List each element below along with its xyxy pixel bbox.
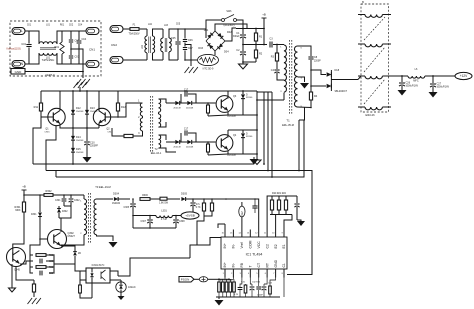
resistor R308 [203, 199, 205, 203]
pin 12 VCC [258, 230, 260, 238]
svg-text:R20 R21 R22: R20 R21 R22 [272, 193, 287, 195]
wire earth mid [71, 49, 83, 78]
wire cap midpoint node [243, 44, 267, 46]
ground standby 2 [9, 288, 16, 292]
wire switch to cap midpoint [237, 20, 244, 33]
transformer T2 primary upper [136, 102, 143, 104]
capacitor C02 (Y) [70, 31, 72, 39]
wire Q2 collector [98, 91, 100, 111]
svg-text:431AC: 431AC [128, 286, 136, 289]
svg-text:E1: E1 [282, 244, 286, 248]
wire feedback divider [118, 275, 126, 277]
pin 5 CT [258, 269, 260, 278]
transformer T2 core [150, 96, 152, 152]
wire winding3 to filter; node [358, 76, 361, 80]
resistor R306 [140, 198, 150, 201]
resistor R2 [255, 45, 257, 51]
transformer T3 core [87, 193, 89, 243]
transformer T3 primary [83, 195, 85, 199]
wire bridge top to B+ rail [215, 24, 247, 31]
svg-text:D302: D302 [62, 211, 68, 213]
wire L line [25, 31, 39, 44]
svg-text:2D4148: 2D4148 [186, 108, 194, 110]
resistor R307 [160, 197, 167, 200]
snubber resistor R3 [276, 45, 278, 54]
pin 10 E2 [275, 230, 277, 238]
connector CN1 top lug [86, 28, 99, 35]
transformer T2 primary lower [140, 118, 142, 131]
pin 13 COM [249, 230, 251, 238]
svg-text:CT: CT [257, 263, 261, 268]
wire Q3 emitter to Q4 collector (midpoint) [243, 114, 257, 116]
ground bias block [83, 157, 92, 163]
svg-text:D12: D12 [76, 107, 81, 110]
diode D12 [72, 91, 74, 110]
svg-text:D18: D18 [335, 69, 340, 72]
svg-text:2D4148: 2D4148 [186, 147, 194, 149]
wire GND strap [25, 71, 83, 73]
pin 8 C1 [283, 269, 285, 278]
pin 15 IN- [232, 230, 234, 238]
svg-text:C2: C2 [265, 244, 269, 248]
wire Q4 emitter down [243, 153, 257, 155]
svg-text:T3 EEL-19-M: T3 EEL-19-M [95, 185, 110, 189]
resistor R303 [36, 254, 46, 257]
svg-text:C05: C05 [176, 24, 181, 26]
diode pair base Q4 [166, 141, 175, 143]
pin 16 IN+ [224, 230, 226, 238]
capacitor C07 (Y) [183, 47, 187, 49]
terminal GND [11, 69, 25, 75]
wire to rectifier bottom [311, 85, 326, 87]
svg-text:C17: C17 [184, 129, 189, 131]
ground TL431 [118, 296, 125, 300]
svg-text:VCC: VCC [257, 241, 261, 249]
capacitor speedup Q4 [180, 133, 182, 142]
line filter transformer L03 [162, 29, 164, 38]
ground (secondary CT) [300, 83, 309, 89]
ground (primary) [242, 62, 244, 64]
wires RC ladder [30, 255, 33, 273]
transistor Q302 [48, 230, 67, 249]
svg-text:C305: C305 [124, 207, 130, 209]
svg-text:COM: COM [249, 240, 253, 248]
svg-text:R01: R01 [54, 46, 59, 49]
EMI filter enclosure (dashed) [10, 21, 101, 76]
wire E2/E1 links [275, 215, 277, 230]
svg-text:T1: T1 [286, 119, 290, 123]
svg-text:C302: C302 [74, 200, 80, 202]
wire neutral to bridge [185, 59, 197, 61]
svg-text:C10: C10 [90, 142, 95, 145]
capacitor C27 [432, 76, 434, 83]
svg-text:C27: C27 [437, 83, 442, 86]
capacitor C2 (bulk) [242, 55, 244, 62]
connector N [12, 61, 25, 68]
svg-text:C308: C308 [179, 221, 185, 223]
wire bus 3 [56, 155, 304, 177]
svg-text:2200PF: 2200PF [90, 146, 99, 148]
T4 winding 1 [358, 14, 365, 16]
TL431 IC302 [116, 282, 126, 292]
diode D14 [72, 128, 74, 136]
svg-text:R01: R01 [60, 25, 65, 27]
wire bias block to T2 [118, 103, 136, 117]
wire L out [79, 30, 86, 32]
svg-text:4.7uH: 4.7uH [161, 219, 167, 221]
svg-text:D15: D15 [76, 148, 81, 151]
wire opto LED feed [75, 264, 86, 271]
ground bottom cluster [218, 297, 220, 299]
pin 6 RT [266, 269, 268, 278]
svg-text:L: L [21, 29, 23, 33]
diode damper Q4 [242, 130, 244, 133]
wire N out [79, 63, 86, 65]
svg-text:C06: C06 [188, 39, 193, 42]
svg-text:EEL-16-1: EEL-16-1 [151, 152, 162, 155]
wire emitter Q4 [228, 151, 243, 155]
svg-text:GND: GND [15, 70, 23, 74]
connector L [12, 28, 25, 35]
diode D304 [114, 197, 118, 201]
wire T1 secondary bottom [298, 106, 312, 109]
wire Q302 base network [40, 228, 48, 239]
svg-text:C04: C04 [78, 25, 83, 27]
svg-text:R11: R11 [34, 106, 39, 109]
svg-text:+5VSB: +5VSB [185, 214, 194, 218]
fuse F1 [123, 28, 130, 30]
wire opto gnd join [91, 283, 93, 298]
wire pson junction [219, 278, 229, 280]
snubber capacitor C4 [274, 69, 279, 71]
resistor base Q4 [207, 144, 210, 152]
wire T1 secondary top [298, 46, 312, 56]
wire standby top rail [24, 194, 84, 196]
diode D305 [181, 197, 185, 201]
svg-text:FB: FB [240, 262, 244, 267]
wire pin links bottom [224, 278, 226, 280]
svg-text:R306: R306 [142, 195, 148, 197]
svg-text:GND: GND [274, 259, 278, 267]
svg-text:C01: C01 [21, 43, 26, 46]
svg-text:1N4148: 1N4148 [76, 111, 84, 113]
wire T3 secondary top [97, 198, 114, 200]
svg-text:FR106: FR106 [246, 97, 253, 99]
connector CN2 line lug [110, 26, 123, 33]
resistor divider cluster R309-R311 [270, 195, 292, 197]
transformer T2 secondary A [159, 99, 161, 112]
resistor R309 [211, 199, 213, 203]
svg-text:B: B [362, 0, 364, 4]
svg-text:(AC230V): (AC230V) [224, 24, 235, 27]
pin 2 IN- [232, 269, 234, 278]
diode pair base Q3 [166, 102, 175, 104]
svg-text:2D4148: 2D4148 [173, 147, 181, 149]
ground (chassis) input [185, 67, 198, 73]
svg-text:SW1: SW1 [226, 10, 232, 13]
svg-text:ERL-35-M: ERL-35-M [282, 123, 294, 127]
svg-text:Vref: Vref [241, 211, 244, 216]
svg-text:D304: D304 [113, 193, 120, 196]
common-mode choke L02 [146, 29, 148, 36]
ground output 2 [429, 92, 438, 98]
wire Q4 collector [228, 129, 257, 131]
svg-text:C32 R34: C32 R34 [252, 282, 261, 284]
ground mid rail [256, 159, 258, 161]
wire vertical links from primary side [263, 92, 265, 164]
svg-text:SBL2040CT: SBL2040CT [335, 91, 348, 93]
svg-text:EI40-26: EI40-26 [365, 113, 375, 117]
resistor R11 and left drop [40, 96, 42, 103]
wire standby to opto link [126, 258, 190, 276]
wire bus2 into chip area [287, 274, 289, 276]
svg-text:C05: C05 [171, 37, 176, 40]
ground standby 1 [28, 298, 41, 304]
wire B+ to transformer [263, 29, 265, 45]
svg-text:2SC4242: 2SC4242 [227, 116, 237, 118]
transistor Q3 [216, 96, 233, 113]
capacitor C302 [70, 195, 72, 198]
resistor R302 [44, 194, 53, 197]
capacitor C06 (Y) [184, 29, 186, 39]
transformer T3 secondary [94, 199, 97, 235]
wire neutral to choke [123, 59, 147, 61]
svg-text:PSON: PSON [181, 277, 190, 281]
capacitor C05 (X2) [177, 29, 179, 41]
capacitor C304 [39, 271, 41, 276]
capacitor C3 (coupling) [269, 42, 271, 48]
svg-text:C945: C945 [45, 131, 51, 133]
transformer T2 secondary C [159, 135, 161, 148]
pin 11 C2 [266, 230, 268, 238]
diode D13 [86, 91, 88, 110]
ground output 1 [398, 90, 407, 96]
svg-text:D301: D301 [31, 214, 37, 216]
wire Q302 emitter [61, 246, 75, 248]
svg-text:Vref: Vref [240, 242, 244, 248]
diode D15 [72, 140, 74, 148]
capacitor C01 [28, 31, 30, 44]
capacitor C305 [132, 199, 134, 203]
transformer T2 secondary B [159, 114, 161, 127]
wire top rail [236, 28, 264, 30]
svg-text:D13: D13 [90, 107, 95, 110]
svg-text:IC1 TL494: IC1 TL494 [246, 253, 263, 257]
thermistor NTC1 [214, 51, 216, 55]
svg-text:C945: C945 [14, 269, 20, 272]
wire bus 2 [46, 171, 312, 275]
bridge rectifier D01-D04 [206, 31, 225, 51]
svg-text:MFC: MFC [413, 80, 419, 83]
T4 winding 3 [358, 75, 365, 77]
svg-text:IN+: IN+ [223, 243, 227, 248]
resistor R01 (zigzag) [61, 31, 63, 42]
svg-text:C01: C01 [27, 25, 32, 27]
terminal +5VSB [181, 212, 199, 219]
pin 4 T [249, 269, 251, 278]
svg-text:C02: C02 [69, 25, 74, 27]
svg-text:IN-: IN- [232, 263, 236, 268]
svg-text:IN-: IN- [232, 244, 236, 249]
svg-text:R31 R32 R33: R31 R32 R33 [220, 280, 233, 282]
svg-text:T5A/250V: T5A/250V [128, 33, 139, 36]
capacitor C10 [86, 128, 88, 141]
wire opto transistor side [110, 271, 118, 276]
wire midpoint to T1 primary [257, 99, 284, 101]
svg-text:1000P: 1000P [257, 295, 263, 297]
svg-text:RT: RT [265, 263, 269, 267]
capacitor C04 (X) [78, 31, 80, 40]
wire VCC feed [226, 199, 259, 230]
pin 14 Vref [241, 230, 243, 238]
svg-text:D04: D04 [224, 51, 229, 54]
polar cap on PSON line [194, 278, 199, 280]
svg-text:T: T [249, 265, 253, 267]
svg-text:FR106: FR106 [246, 136, 253, 138]
transistor Q2 [93, 108, 110, 125]
transistor Q1 [48, 108, 65, 125]
svg-text:D02: D02 [227, 31, 232, 34]
svg-text:1N4148: 1N4148 [76, 140, 84, 142]
transistor Q301 [7, 248, 26, 267]
resistor R12 and right drop [117, 91, 119, 103]
zener ZD301 [74, 248, 76, 251]
node B+ standby [23, 190, 25, 202]
wire T3 primary bottom to Q302 [61, 240, 84, 246]
dual schottky D18 [327, 72, 332, 77]
svg-text:C1: C1 [282, 263, 286, 267]
capacitor C303 [39, 259, 41, 264]
svg-text:+B: +B [262, 13, 266, 17]
capacitor C26 [401, 76, 403, 82]
wire bias top rail [60, 90, 99, 92]
wire bus 1 [33, 163, 254, 165]
transformer T1 primary [283, 44, 285, 47]
ground bus marker [253, 157, 255, 159]
diode D302 [58, 206, 60, 208]
pin 1 IN+ [224, 269, 226, 278]
wire emitter Q3 [228, 112, 243, 116]
flag PSON [179, 277, 194, 283]
resistor R305 [33, 280, 35, 284]
transformer T1 secondary [294, 46, 297, 107]
wire bottom node [243, 61, 256, 63]
wire Q301 emitter [11, 264, 13, 288]
resistor R1 [255, 29, 257, 34]
svg-text:C26: C26 [406, 82, 411, 85]
T4 core coupling marks [364, 17, 385, 104]
svg-text:L02: L02 [141, 44, 144, 49]
svg-text:NTC 5D-9: NTC 5D-9 [203, 68, 214, 71]
wire Y-cap earth [185, 45, 191, 67]
svg-text:330uF: 330uF [233, 36, 240, 38]
wire collector Q4 [227, 130, 229, 138]
common-mode choke L01 [39, 42, 57, 44]
svg-text:1000uF/16V: 1000uF/16V [406, 86, 419, 88]
svg-text:4.7K: 4.7K [196, 207, 201, 209]
wire emitter rail [60, 124, 99, 129]
svg-text:2200P: 2200P [314, 61, 321, 63]
svg-text:D305: D305 [181, 193, 188, 196]
svg-text:C301: C301 [55, 200, 61, 202]
svg-text:C5027: C5027 [68, 235, 76, 238]
optocoupler IC301 [86, 268, 110, 283]
resistor R315 (opto bias) [79, 280, 81, 285]
RC pairs under chip [239, 285, 241, 287]
output terminal +12V [455, 72, 472, 79]
capacitor speedup Q3 [180, 94, 182, 103]
wire Q302 collector [61, 210, 71, 232]
diode D301 [39, 195, 41, 212]
coupled inductor T4 (dashed box) [361, 4, 389, 112]
svg-text:1N4148: 1N4148 [76, 152, 84, 154]
capacitor C307 [149, 216, 151, 220]
svg-text:IC301 817C: IC301 817C [92, 264, 105, 267]
svg-text:CEPT-X: CEPT-X [45, 73, 55, 77]
ground T3 secondary [109, 242, 118, 248]
Vref bead [239, 206, 245, 217]
diode damper Q3 [242, 91, 244, 94]
svg-text:Kaihua(1103): Kaihua(1103) [7, 48, 21, 51]
wire T1 centre tap [298, 77, 305, 82]
svg-text:L301: L301 [161, 210, 167, 213]
wire secondary return links [298, 120, 300, 171]
capacitor C309 [224, 224, 226, 230]
ground (chassis) [77, 79, 90, 85]
svg-text:2D4148: 2D4148 [173, 108, 181, 110]
svg-text:CN1: CN1 [89, 48, 95, 52]
wire rectifier output [332, 79, 359, 81]
connector CN2 neutral lug [110, 57, 123, 64]
node B+ [263, 18, 265, 29]
svg-text:330K: 330K [15, 210, 21, 212]
pin 3 FB [241, 269, 243, 278]
svg-text:1N4934: 1N4934 [112, 203, 121, 205]
svg-text:R12: R12 [121, 106, 126, 109]
pin 7 GND [275, 269, 277, 278]
svg-text:D14: D14 [76, 136, 81, 139]
resistor R301 [22, 202, 25, 212]
resistor R304 [36, 266, 46, 269]
svg-text:2SC4242: 2SC4242 [227, 155, 237, 157]
connector CN1 bottom lug [86, 61, 99, 68]
capacitor C03 (Y) [69, 55, 73, 57]
svg-text:C307: C307 [141, 221, 147, 223]
svg-text:1.8K/1W: 1.8K/1W [159, 203, 169, 205]
svg-text:TuP5c250c: TuP5c250c [42, 59, 55, 62]
wire collector Q3 [227, 91, 229, 99]
wire bridge right [225, 28, 236, 41]
inductor L301 [133, 215, 156, 217]
T4 winding 2 [358, 43, 365, 45]
switch SW1 (115/230V) [206, 20, 221, 29]
svg-text:R301: R301 [15, 206, 22, 209]
wire T3 secondary bottom [97, 235, 114, 241]
svg-text:1N4148: 1N4148 [90, 111, 98, 113]
wire N line [25, 53, 39, 64]
svg-text:1000uF/16V: 1000uF/16V [437, 87, 450, 89]
svg-text:D01: D01 [204, 29, 209, 32]
inductor L6 [402, 75, 408, 77]
svg-text:CN2: CN2 [111, 43, 117, 47]
wire comp link [190, 238, 221, 259]
svg-text:+B: +B [22, 185, 26, 189]
wire Q3 collector rail to B+ [118, 90, 257, 92]
svg-text:+12V: +12V [460, 74, 468, 78]
wire standby ground rail [133, 227, 176, 229]
wire bottom bus [216, 296, 280, 298]
wire to rectifier top [311, 70, 326, 75]
